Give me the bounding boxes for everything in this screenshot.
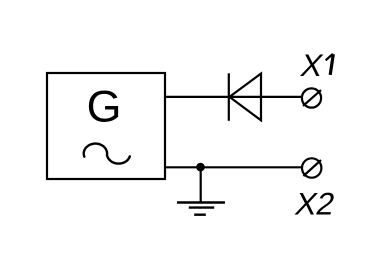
terminal X2 slash — [303, 160, 321, 176]
label X1 — [298, 47, 333, 83]
ground symbol bars — [177, 203, 225, 215]
junction node dot — [196, 163, 205, 172]
label X2 — [292, 186, 338, 222]
wire top: generator to diode to X1 — [164, 96, 302, 98]
generator G (box) — [47, 73, 165, 179]
terminal X2 circle — [302, 158, 321, 177]
svg-text:X: X — [298, 47, 326, 83]
ground stem wire — [200, 167, 202, 202]
generator sine symbol — [84, 144, 130, 164]
terminal X1 slash — [303, 90, 321, 106]
wire bottom: generator to X2 — [164, 166, 302, 168]
generator label G — [87, 81, 122, 131]
diode cathode bar — [228, 73, 230, 121]
terminal X1 circle — [302, 88, 321, 107]
svg-text:G: G — [87, 81, 122, 131]
diode triangle — [230, 74, 262, 121]
svg-text:X2: X2 — [292, 186, 338, 222]
